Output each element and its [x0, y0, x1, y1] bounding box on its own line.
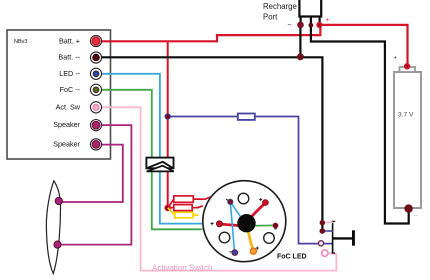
recharge pin mid dot	[309, 23, 314, 28]
board wire yellow hub to orange pad	[248, 228, 254, 251]
terminal Speaker 2	[90, 139, 101, 150]
terminal FoC-	[90, 84, 101, 95]
wire cyan LED-	[101, 74, 204, 224]
speaker terminal top	[55, 197, 62, 204]
board wire cyan pad to bottom pad	[230, 202, 234, 253]
svg-text:FoC --: FoC --	[60, 85, 81, 94]
hole bottom right	[264, 233, 275, 244]
recharge port connector	[298, 0, 322, 24]
wire green FoC-	[101, 90, 202, 230]
speaker	[46, 181, 60, 274]
pad top-right red +	[263, 200, 269, 206]
switch contact dot 4 pink	[322, 250, 328, 256]
svg-text:Activation Switch: Activation Switch	[152, 263, 212, 272]
resistor node red	[165, 205, 171, 211]
svg-text:+: +	[394, 56, 398, 62]
terminal Batt.+	[90, 35, 101, 46]
activation switch symbol	[332, 221, 355, 253]
speaker terminal bottom	[54, 241, 61, 248]
switch navy stub	[322, 230, 333, 232]
wire black Batt.- to switch	[101, 57, 322, 231]
pad orange +	[250, 248, 256, 254]
wire navy to switch	[168, 116, 238, 118]
switch contact dot 2	[320, 228, 326, 234]
svg-text:LED --: LED --	[59, 69, 80, 78]
cable connector (strain relief)	[146, 158, 173, 172]
wire magenta speaker 2	[60, 145, 123, 202]
FoC LED board	[203, 181, 286, 262]
resistor navy	[238, 114, 255, 120]
controller box NBv3	[7, 30, 111, 159]
svg-text:--: --	[288, 22, 292, 28]
pad bottom blue -	[232, 250, 238, 256]
board wire cyan pad to hub	[230, 202, 243, 221]
board wire green hub to right pad	[250, 224, 276, 227]
pad left red +	[216, 221, 222, 227]
svg-text:Act. Sw: Act. Sw	[56, 102, 81, 111]
svg-text:+: +	[326, 17, 330, 24]
svg-text:FoC LED: FoC LED	[277, 254, 307, 261]
svg-text:NBv3: NBv3	[14, 39, 27, 45]
terminal Batt.-	[90, 52, 101, 63]
wire black recharge left pin down to junction	[299, 23, 301, 57]
terminal LED-	[90, 68, 101, 79]
terminal Speaker 1	[90, 120, 101, 131]
switch contact dot 1	[320, 220, 325, 225]
battery - terminal	[404, 204, 412, 212]
svg-text:Batt. +: Batt. +	[59, 37, 80, 46]
svg-text:3.7 V: 3.7 V	[398, 111, 414, 118]
terminal Act.Sw	[90, 102, 101, 113]
pad top-left maroon	[228, 199, 233, 204]
svg-text:Recharge: Recharge	[263, 2, 297, 11]
recharge pin - (left dot)	[297, 22, 304, 29]
junction black/batt-	[297, 53, 304, 60]
board wire red left pad to hub	[219, 224, 244, 226]
switch contact dot 3	[318, 241, 323, 246]
resistor R2	[168, 205, 203, 211]
resistor R1	[168, 196, 211, 208]
pad right maroon -	[273, 223, 278, 228]
svg-text:Speaker: Speaker	[53, 120, 80, 129]
svg-text:Port: Port	[263, 13, 278, 22]
wire red vertical branch to resistor node	[167, 41, 169, 208]
svg-text:Batt. --: Batt. --	[58, 53, 80, 62]
svg-text:--: --	[414, 213, 418, 219]
battery	[394, 56, 422, 220]
wire black recharge mid pin to battery -	[311, 24, 409, 224]
hole bottom left	[219, 232, 230, 243]
wire magenta speaker 1	[58, 125, 131, 245]
wire pink Act.Sw	[101, 107, 336, 270]
board wire red hub to top right pad	[248, 203, 265, 220]
hole top	[238, 193, 249, 204]
resistor R3 yellow	[168, 208, 199, 218]
recharge pin + (red dot)	[316, 22, 322, 28]
hub disc	[237, 214, 255, 232]
switch pink stub	[322, 221, 333, 224]
junction node navy/red	[165, 114, 171, 120]
svg-text:Speaker: Speaker	[53, 140, 80, 149]
battery + terminal	[404, 63, 410, 69]
wire red Batt.+ to recharge port and battery +	[101, 25, 320, 41]
wire red recharge + to battery +	[319, 25, 407, 66]
